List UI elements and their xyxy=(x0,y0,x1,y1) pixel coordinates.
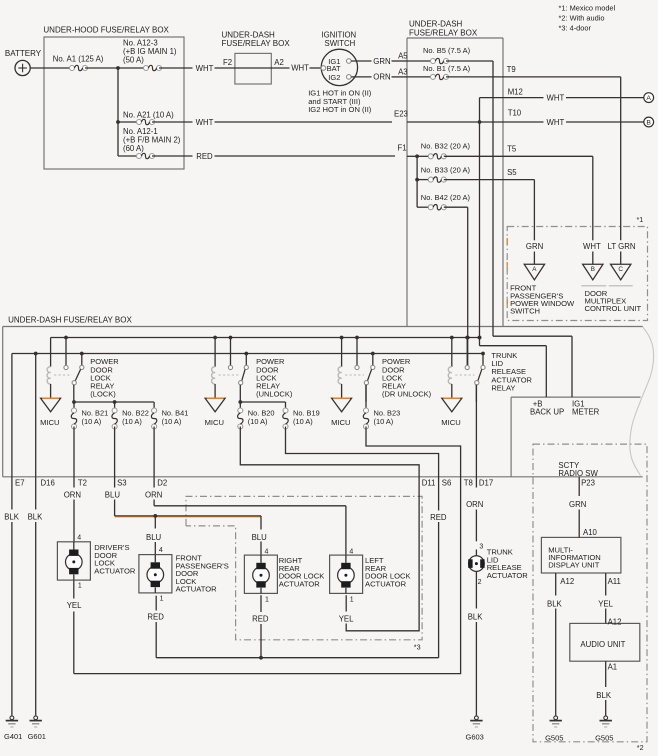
svg-text:RED: RED xyxy=(252,615,269,624)
svg-text:CONTROL UNIT: CONTROL UNIT xyxy=(585,304,642,313)
svg-text:SWITCH: SWITCH xyxy=(510,307,540,316)
svg-text:BLU: BLU xyxy=(105,491,121,500)
svg-text:(10 A): (10 A) xyxy=(122,417,142,426)
svg-text:1: 1 xyxy=(78,583,82,590)
svg-text:BAT: BAT xyxy=(327,64,341,73)
svg-text:No. A1 (125 A): No. A1 (125 A) xyxy=(53,55,104,64)
svg-text:E23: E23 xyxy=(394,110,408,119)
svg-text:F2: F2 xyxy=(223,58,232,67)
svg-text:A10: A10 xyxy=(583,528,598,537)
svg-text:(50 A): (50 A) xyxy=(123,56,144,65)
svg-text:G401: G401 xyxy=(4,732,22,741)
svg-text:ACTUATOR: ACTUATOR xyxy=(94,566,136,575)
svg-text:B: B xyxy=(591,266,595,273)
svg-text:WHT: WHT xyxy=(196,118,214,127)
svg-text:BLU: BLU xyxy=(146,533,162,542)
svg-text:AUDIO UNIT: AUDIO UNIT xyxy=(580,640,625,649)
svg-text:BLK: BLK xyxy=(547,599,563,608)
svg-text:4: 4 xyxy=(265,548,269,555)
svg-text:(10 A): (10 A) xyxy=(82,417,102,426)
svg-text:WHT: WHT xyxy=(196,64,214,73)
svg-text:GRN: GRN xyxy=(569,500,586,509)
svg-text:1: 1 xyxy=(265,597,269,604)
svg-text:BACK UP: BACK UP xyxy=(530,407,564,416)
svg-text:No. B1 (7.5 A): No. B1 (7.5 A) xyxy=(423,64,471,73)
svg-text:G505: G505 xyxy=(595,734,613,743)
svg-text:D16: D16 xyxy=(41,478,55,487)
svg-text:A5: A5 xyxy=(398,51,408,60)
svg-text:3: 3 xyxy=(479,544,483,551)
svg-text:(UNLOCK): (UNLOCK) xyxy=(256,390,293,399)
svg-text:ORN: ORN xyxy=(373,73,390,82)
svg-text:4: 4 xyxy=(77,535,81,542)
svg-text:A12: A12 xyxy=(560,577,574,586)
svg-text:RED: RED xyxy=(430,513,447,522)
svg-text:S3: S3 xyxy=(117,478,127,487)
svg-text:A12: A12 xyxy=(608,617,622,626)
svg-text:MICU: MICU xyxy=(441,418,460,427)
svg-text:RELAY: RELAY xyxy=(491,383,515,392)
svg-text:G601: G601 xyxy=(28,732,46,741)
svg-text:UNDER-DASH FUSE/RELAY BOX: UNDER-DASH FUSE/RELAY BOX xyxy=(8,316,132,325)
svg-text:BATTERY: BATTERY xyxy=(5,49,42,58)
svg-text:4: 4 xyxy=(159,547,163,554)
svg-text:T10: T10 xyxy=(508,108,522,117)
svg-text:A11: A11 xyxy=(608,577,621,586)
svg-text:RED: RED xyxy=(147,613,164,622)
svg-text:YEL: YEL xyxy=(339,615,354,624)
svg-text:(10 A): (10 A) xyxy=(248,417,268,426)
svg-text:*1: *1 xyxy=(637,215,644,224)
svg-text:No. A21 (10 A): No. A21 (10 A) xyxy=(123,111,174,120)
svg-text:F1: F1 xyxy=(398,144,407,153)
svg-text:4: 4 xyxy=(349,548,353,555)
svg-text:(60 A): (60 A) xyxy=(123,144,144,153)
svg-text:A: A xyxy=(646,95,651,102)
svg-text:S6: S6 xyxy=(442,478,452,487)
svg-text:BLK: BLK xyxy=(28,513,44,522)
svg-text:METER: METER xyxy=(572,407,600,416)
svg-text:GRN: GRN xyxy=(373,57,390,66)
svg-text:ORN: ORN xyxy=(64,491,81,500)
svg-text:ACTUATOR: ACTUATOR xyxy=(487,571,529,580)
svg-text:YEL: YEL xyxy=(67,601,82,610)
svg-text:No. B32 (20 A): No. B32 (20 A) xyxy=(421,142,471,151)
svg-text:(DR UNLOCK): (DR UNLOCK) xyxy=(382,390,432,399)
svg-text:BLU: BLU xyxy=(252,533,268,542)
svg-text:BLK: BLK xyxy=(468,612,484,621)
svg-text:*2: *2 xyxy=(637,743,644,752)
svg-text:*2: With audio: *2: With audio xyxy=(559,14,605,23)
svg-text:*3: *3 xyxy=(414,643,421,652)
svg-text:RED: RED xyxy=(196,152,213,161)
svg-text:No. B5 (7.5 A): No. B5 (7.5 A) xyxy=(423,46,471,55)
svg-text:WHT: WHT xyxy=(547,94,565,103)
svg-text:WHT: WHT xyxy=(291,64,309,73)
svg-text:FUSE/RELAY BOX: FUSE/RELAY BOX xyxy=(409,28,478,37)
svg-text:DISPLAY UNIT: DISPLAY UNIT xyxy=(548,561,600,570)
svg-text:*3: 4-door: *3: 4-door xyxy=(559,24,592,33)
svg-text:RADIO SW: RADIO SW xyxy=(558,469,598,478)
svg-text:GRN: GRN xyxy=(526,242,543,251)
svg-text:A3: A3 xyxy=(398,68,408,77)
svg-text:E7: E7 xyxy=(15,478,25,487)
svg-text:T8: T8 xyxy=(464,478,473,487)
svg-text:(LOCK): (LOCK) xyxy=(90,390,116,399)
svg-text:No. B42 (20 A): No. B42 (20 A) xyxy=(421,193,471,202)
svg-text:LT GRN: LT GRN xyxy=(608,242,636,251)
svg-text:YEL: YEL xyxy=(598,599,613,608)
svg-text:WHT: WHT xyxy=(583,242,601,251)
svg-text:MICU: MICU xyxy=(40,418,59,427)
svg-text:T5: T5 xyxy=(507,144,517,153)
svg-text:1: 1 xyxy=(160,595,164,602)
svg-text:M12: M12 xyxy=(508,87,523,96)
svg-text:(10 A): (10 A) xyxy=(374,417,394,426)
svg-text:D2: D2 xyxy=(157,478,167,487)
svg-text:ORN: ORN xyxy=(145,491,162,500)
svg-text:IG2: IG2 xyxy=(328,73,340,82)
svg-text:G505: G505 xyxy=(545,734,563,743)
svg-text:FUSE/RELAY BOX: FUSE/RELAY BOX xyxy=(222,39,291,48)
svg-text:(10 A): (10 A) xyxy=(162,417,182,426)
svg-text:P23: P23 xyxy=(581,478,595,487)
svg-text:T9: T9 xyxy=(507,65,516,74)
svg-text:*1: Mexico model: *1: Mexico model xyxy=(559,3,616,12)
svg-text:A1: A1 xyxy=(608,663,618,672)
svg-text:MICU: MICU xyxy=(331,418,350,427)
svg-text:No. B33 (20 A): No. B33 (20 A) xyxy=(421,165,471,174)
svg-text:BLK: BLK xyxy=(4,513,20,522)
svg-text:D11: D11 xyxy=(422,478,436,487)
svg-text:ACTUATOR: ACTUATOR xyxy=(365,579,407,588)
svg-text:S5: S5 xyxy=(507,168,517,177)
svg-text:BLK: BLK xyxy=(596,691,612,700)
svg-text:UNDER-HOOD FUSE/RELAY BOX: UNDER-HOOD FUSE/RELAY BOX xyxy=(43,26,169,35)
svg-text:SWITCH: SWITCH xyxy=(325,39,356,48)
svg-text:ORN: ORN xyxy=(466,500,483,509)
svg-text:ACTUATOR: ACTUATOR xyxy=(279,579,321,588)
svg-text:ACTUATOR: ACTUATOR xyxy=(176,585,218,594)
svg-text:IG2 HOT in ON (II): IG2 HOT in ON (II) xyxy=(308,105,372,114)
svg-text:2: 2 xyxy=(478,579,482,586)
svg-text:T2: T2 xyxy=(78,478,87,487)
svg-text:WHT: WHT xyxy=(547,118,565,127)
svg-text:D17: D17 xyxy=(479,478,493,487)
svg-text:(10 A): (10 A) xyxy=(293,417,313,426)
svg-text:C: C xyxy=(618,266,623,273)
svg-text:A2: A2 xyxy=(274,58,284,67)
svg-text:B: B xyxy=(646,120,651,127)
svg-text:G603: G603 xyxy=(466,733,484,742)
svg-text:MICU: MICU xyxy=(205,418,224,427)
svg-text:UNDER-DASH: UNDER-DASH xyxy=(409,19,463,28)
svg-text:1: 1 xyxy=(350,597,354,604)
